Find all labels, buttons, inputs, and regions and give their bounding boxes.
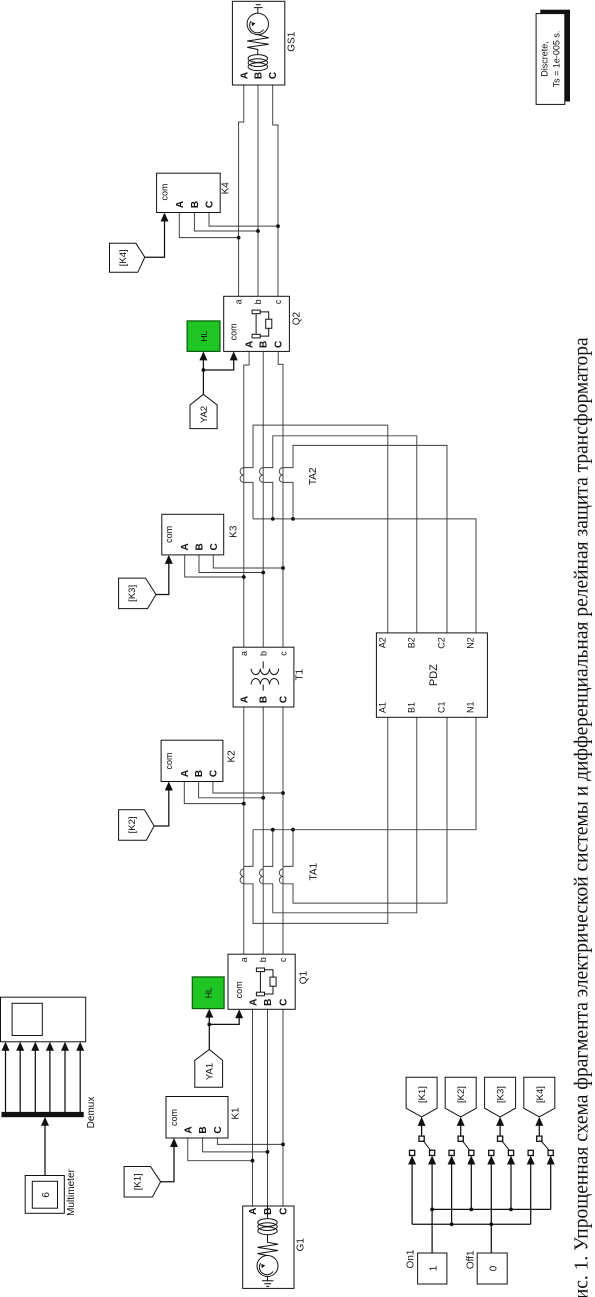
demux <box>2 1112 83 1116</box>
junction N2 C <box>291 517 295 521</box>
lamp HL2 <box>187 321 220 352</box>
svg-text:Multimeter: Multimeter <box>66 1168 77 1215</box>
svg-text:A: A <box>180 770 191 777</box>
wire bus phase C G1-Q1 <box>282 1009 284 1206</box>
tag YA1 <box>195 1050 223 1088</box>
tag Goto [K1] <box>406 1077 437 1117</box>
wire TA1 C secondary to N1 <box>283 830 293 867</box>
svg-text:[K4]: [K4] <box>118 249 129 266</box>
wire On1 feed <box>431 1164 433 1253</box>
wire TA2 B secondary to PDZ B2 <box>263 436 417 633</box>
svg-text:TA2: TA2 <box>308 467 319 485</box>
wire demux out 1 <box>5 1050 7 1112</box>
svg-text:[K3]: [K3] <box>496 1086 507 1103</box>
wire TA2 A secondary to N2 <box>244 482 253 519</box>
junction K2 tap B <box>261 796 265 800</box>
svg-text:B: B <box>190 201 201 208</box>
tag From [K4] <box>110 243 145 272</box>
wire N2 common to PDZ <box>253 519 476 633</box>
junction N1 B <box>271 828 275 832</box>
wire K1 phase A tap <box>188 1138 253 1161</box>
three-phase source G1 <box>243 1206 294 1288</box>
svg-text:a: a <box>239 651 249 656</box>
svg-text:A: A <box>183 1126 194 1133</box>
wire On branch SA2 <box>470 1164 472 1209</box>
wire SA1 to Goto <box>421 1125 423 1136</box>
svg-text:1: 1 <box>429 1265 440 1271</box>
svg-text:B: B <box>194 770 205 777</box>
three-phase fault block K1 <box>166 1097 228 1139</box>
wire TA2 C secondary to N2 <box>283 482 293 519</box>
tag From [K3] <box>119 578 156 609</box>
wire SA3 to Goto <box>499 1125 501 1136</box>
wire TA1 C secondary to PDZ C1 <box>283 717 447 903</box>
svg-text:Off1: Off1 <box>465 1250 476 1269</box>
svg-text:[K2]: [K2] <box>456 1086 467 1103</box>
junction On feed <box>430 1208 434 1212</box>
wire bus phase B Q1-T1 <box>262 707 264 954</box>
junction YA2 branch <box>202 368 206 372</box>
svg-text:B2: B2 <box>406 637 416 648</box>
wire bus phase A T1-Q2 <box>244 351 249 647</box>
transformer TA1 CT phase B winding <box>260 869 264 884</box>
svg-text:On1: On1 <box>406 1249 417 1268</box>
wire K3 phase B tap <box>199 555 263 573</box>
relay block PDZ <box>376 633 487 717</box>
svg-text:Q2: Q2 <box>292 311 303 325</box>
wire K4 phase A tap <box>179 213 238 238</box>
svg-text:A: A <box>175 201 186 208</box>
svg-text:C: C <box>209 543 220 550</box>
svg-text:[K1]: [K1] <box>133 1173 144 1190</box>
svg-text:b: b <box>253 299 263 304</box>
svg-text:[K3]: [K3] <box>127 585 138 602</box>
svg-text:[K1]: [K1] <box>417 1086 428 1103</box>
wire TA1 A secondary to PDZ A1 <box>244 717 388 923</box>
wire SA4 to Goto <box>538 1125 540 1136</box>
svg-text:b: b <box>258 957 268 962</box>
svg-text:C2: C2 <box>437 637 447 649</box>
junction K1 tap A <box>251 1159 255 1163</box>
wire K3 phase C tap <box>213 555 283 568</box>
svg-text:C: C <box>268 72 279 79</box>
wire TA2 B secondary to N2 <box>263 482 273 519</box>
wire On distribution <box>432 1208 551 1210</box>
junction K3 tap B <box>261 571 265 575</box>
wire TA1 B secondary to N1 <box>263 830 273 867</box>
svg-text:Demux: Demux <box>86 1097 97 1129</box>
scope block <box>1 997 86 1042</box>
svg-text:[K4]: [K4] <box>535 1086 546 1103</box>
wire demux out 6 <box>79 1050 81 1112</box>
junction On SA3 <box>509 1208 513 1212</box>
svg-text:com: com <box>234 981 244 998</box>
lamp HL1 <box>192 977 224 1009</box>
wire K2 phase A tap <box>184 782 244 804</box>
junction K1 tap C <box>281 1143 285 1147</box>
wire YA1 to HL1 <box>208 1017 210 1050</box>
transformer TA2 CT phase B winding <box>260 468 264 483</box>
svg-text:A: A <box>180 543 191 550</box>
wire demux out 2 <box>19 1050 21 1112</box>
wire On branch SA3 <box>510 1164 512 1209</box>
wire K2 phase B tap <box>199 782 264 798</box>
junction YA1 branch <box>207 1023 211 1027</box>
junction K2 tap A <box>242 802 246 806</box>
tag Goto [K2] <box>445 1077 476 1117</box>
svg-text:B: B <box>263 1208 274 1215</box>
tag From [K2] <box>119 810 155 841</box>
svg-text:HL: HL <box>204 987 214 998</box>
svg-text:a: a <box>239 957 249 962</box>
svg-text:b: b <box>259 651 269 656</box>
wire K1 phase B tap <box>203 1138 268 1152</box>
transformer TA1 CT phase A winding <box>240 869 244 884</box>
svg-text:G1: G1 <box>296 1238 307 1252</box>
svg-text:c: c <box>278 651 288 656</box>
svg-text:Ts = 1e-005 s.: Ts = 1e-005 s. <box>552 31 562 88</box>
switch SA4 <box>528 1136 553 1155</box>
wire From[K1] to K1 com <box>161 1147 174 1182</box>
svg-text:com: com <box>169 1109 179 1126</box>
wire K2 phase C tap <box>213 782 283 794</box>
wire YA2 to HL2 <box>202 360 204 394</box>
svg-text:N1: N1 <box>466 701 476 713</box>
wire demux out 3 <box>34 1050 36 1112</box>
svg-text:[K2]: [K2] <box>127 816 138 833</box>
svg-text:PDZ: PDZ <box>428 664 440 686</box>
tag From [K1] <box>124 1167 161 1198</box>
svg-text:c: c <box>278 957 288 962</box>
wire bus phase B G1-Q1 <box>267 1009 269 1206</box>
svg-text:B: B <box>198 1126 209 1133</box>
switch SA2 <box>449 1136 474 1155</box>
svg-text:com: com <box>164 752 174 769</box>
svg-text:GS1: GS1 <box>287 31 298 51</box>
svg-text:YA1: YA1 <box>205 1063 216 1080</box>
junction K2 tap C <box>281 791 285 795</box>
three-phase fault block K3 <box>162 514 224 555</box>
svg-text:Q1: Q1 <box>299 970 310 984</box>
wire bus phase A Q2-GS1 <box>239 85 244 296</box>
circuit breaker Q2 <box>224 296 290 351</box>
wire bus phase B Q2-GS1 <box>257 85 259 296</box>
wire bus phase C Q2-GS1 <box>273 85 278 296</box>
svg-text:YA2: YA2 <box>199 406 210 423</box>
constant On1 <box>418 1253 447 1284</box>
svg-text:C: C <box>205 201 216 208</box>
svg-text:C: C <box>279 696 290 703</box>
wire demux out 4 <box>49 1050 51 1112</box>
svg-text:A: A <box>239 72 250 79</box>
annotation Discrete solver <box>536 10 569 104</box>
junction N1 C <box>291 828 295 832</box>
wire N1 common to PDZ <box>253 717 476 829</box>
wire TA1 B secondary to PDZ B1 <box>263 717 417 913</box>
wire From[K4] to K4 com <box>145 221 165 257</box>
wire K3 phase A tap <box>185 555 244 577</box>
svg-text:N2: N2 <box>466 637 476 649</box>
tag YA2 <box>190 394 217 428</box>
switch SA1 <box>410 1136 435 1155</box>
svg-text:c: c <box>273 299 283 304</box>
junction N2 B <box>271 517 275 521</box>
svg-text:6: 6 <box>41 1192 52 1198</box>
svg-text:TA1: TA1 <box>309 862 320 880</box>
svg-text:C: C <box>279 1208 290 1215</box>
svg-text:K3: K3 <box>229 525 240 538</box>
wire Off distribution <box>412 1223 531 1225</box>
constant Off1 <box>477 1253 507 1284</box>
svg-text:A: A <box>245 341 256 348</box>
svg-text:K2: K2 <box>227 750 238 763</box>
junction K4 tap B <box>256 229 260 233</box>
transformer TA2 CT phase C winding <box>279 468 283 483</box>
wire Off branch SA1 <box>411 1164 413 1224</box>
svg-text:A: A <box>239 696 250 703</box>
svg-text:B: B <box>195 543 206 550</box>
svg-text:C: C <box>213 1126 224 1133</box>
wire Off branch SA2 <box>451 1164 453 1224</box>
svg-text:Discrete,: Discrete, <box>540 41 550 77</box>
wire TA2 A secondary to PDZ A2 <box>244 425 388 633</box>
wire K1 phase C tap <box>217 1138 283 1144</box>
svg-text:T1: T1 <box>295 668 306 680</box>
wire SA2 to Goto <box>460 1125 462 1136</box>
wire K4 phase C tap <box>209 213 278 227</box>
svg-text:com: com <box>160 183 170 200</box>
wire bus phase A Q1-T1 <box>243 707 245 954</box>
junction K4 tap C <box>276 224 280 228</box>
svg-text:A: A <box>248 1208 259 1215</box>
svg-text:B1: B1 <box>406 702 416 713</box>
wire multimeter to demux <box>44 1125 46 1175</box>
tag Goto [K3] <box>485 1077 516 1117</box>
circuit breaker Q1 <box>228 954 295 1009</box>
svg-text:com: com <box>229 323 239 340</box>
wire Off branch SA4 <box>530 1164 532 1224</box>
svg-text:K4: K4 <box>221 182 232 195</box>
svg-text:A1: A1 <box>377 702 387 713</box>
svg-text:C1: C1 <box>437 701 447 713</box>
wire bus phase B T1-Q2 <box>262 351 264 647</box>
transformer TA2 CT phase A winding <box>240 468 244 483</box>
transformer T1 <box>233 647 294 707</box>
wire demux out 5 <box>64 1050 66 1112</box>
switch SA3 <box>489 1136 514 1155</box>
wire TA2 C secondary to PDZ C2 <box>283 445 447 633</box>
wire bus phase C Q1-T1 <box>282 707 284 954</box>
svg-text:B: B <box>259 696 270 703</box>
junction On SA2 <box>469 1208 473 1212</box>
junction K3 tap C <box>281 566 285 570</box>
wire bus phase A G1-Q1 <box>252 1009 254 1206</box>
wire K4 phase B tap <box>194 213 258 232</box>
wire bus phase C T1-Q2 <box>278 351 283 647</box>
junction Off SA2 <box>450 1222 454 1226</box>
wire From[K3] to K3 com <box>156 563 169 594</box>
svg-text:B: B <box>259 341 270 348</box>
wire From[K2] to K2 com <box>154 790 169 826</box>
three-phase fault block K2 <box>161 740 223 781</box>
svg-text:B: B <box>253 72 264 79</box>
wire YA2 branch to Q2 com <box>203 360 233 370</box>
tag Goto [K4] <box>524 1077 555 1117</box>
junction K1 tap B <box>266 1150 270 1154</box>
svg-text:a: a <box>234 299 244 304</box>
svg-text:C: C <box>274 341 285 348</box>
junction K4 tap A <box>237 236 241 240</box>
svg-text:C: C <box>208 770 219 777</box>
junction K3 tap A <box>242 575 246 579</box>
three-phase fault block K4 <box>157 173 221 212</box>
svg-text:B: B <box>263 999 274 1006</box>
svg-text:HL: HL <box>199 330 209 341</box>
svg-text:C: C <box>279 999 290 1006</box>
svg-text:A: A <box>249 999 260 1006</box>
multimeter block <box>25 1176 64 1214</box>
transformer TA1 CT phase C winding <box>279 869 283 884</box>
svg-text:Рис. 1. Упрощенная схема фрагм: Рис. 1. Упрощенная схема фрагмента элект… <box>572 337 593 1297</box>
svg-text:0: 0 <box>489 1265 500 1271</box>
wire Off1 feed <box>490 1164 492 1253</box>
wire YA1 branch to Q1 com <box>209 1018 239 1025</box>
wire TA1 A secondary to N1 <box>244 830 253 867</box>
svg-text:A2: A2 <box>377 637 387 648</box>
svg-text:K1: K1 <box>231 1107 242 1120</box>
junction Off feed <box>489 1222 493 1226</box>
three-phase source GS1 <box>232 1 284 85</box>
wire On branch SA4 <box>550 1164 552 1209</box>
svg-text:com: com <box>164 526 174 543</box>
